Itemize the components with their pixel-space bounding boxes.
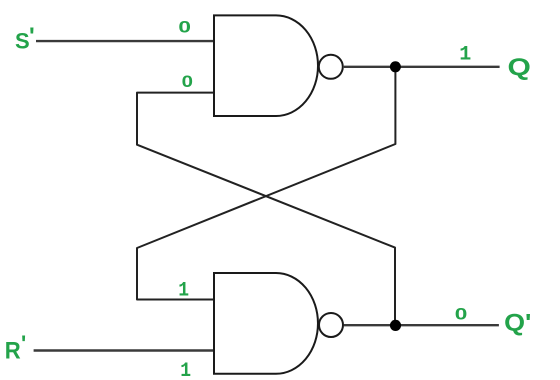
nand gate U2 bottom body: [214, 273, 318, 374]
nand gate U1 top body: [214, 15, 318, 116]
svg-text:0: 0: [182, 72, 193, 91]
value 0 on top gate input 2: [182, 72, 193, 91]
wire feedback Q to bottom gate input 1: [137, 67, 395, 300]
svg-text:1: 1: [459, 43, 471, 66]
nand gate U1 bubble: [319, 55, 343, 79]
label R: [5, 336, 21, 363]
svg-text:': ': [29, 23, 35, 50]
value 1 on R' input: [180, 359, 191, 380]
wire R' input: [34, 349, 214, 351]
svg-text:1: 1: [178, 279, 189, 302]
wire Q output: [344, 66, 500, 68]
value 0 on S' input: [178, 18, 191, 37]
svg-text:': ': [21, 331, 26, 356]
value 1 on Q output: [459, 43, 471, 66]
nand gate U2 bubble: [319, 313, 343, 337]
label R prime: [21, 331, 26, 356]
svg-text:S: S: [15, 28, 30, 53]
value 0 on Q' output: [455, 305, 468, 324]
wire Q' output: [344, 324, 499, 326]
junction node Q': [390, 320, 401, 331]
junction node Q: [390, 61, 401, 72]
svg-text:0: 0: [455, 305, 468, 324]
wire S' input: [36, 40, 214, 42]
label Q': [504, 310, 531, 336]
svg-text:Q': Q': [504, 310, 531, 336]
label S prime: [29, 23, 35, 50]
value 1 on bottom gate input 1: [178, 279, 189, 302]
svg-text:1: 1: [180, 359, 191, 380]
label Q: [508, 53, 531, 80]
label S: [15, 28, 30, 53]
svg-text:R: R: [5, 336, 21, 363]
svg-text:Q: Q: [508, 53, 531, 80]
svg-text:0: 0: [178, 18, 191, 37]
wire feedback Q' to top gate input 2: [137, 93, 395, 326]
